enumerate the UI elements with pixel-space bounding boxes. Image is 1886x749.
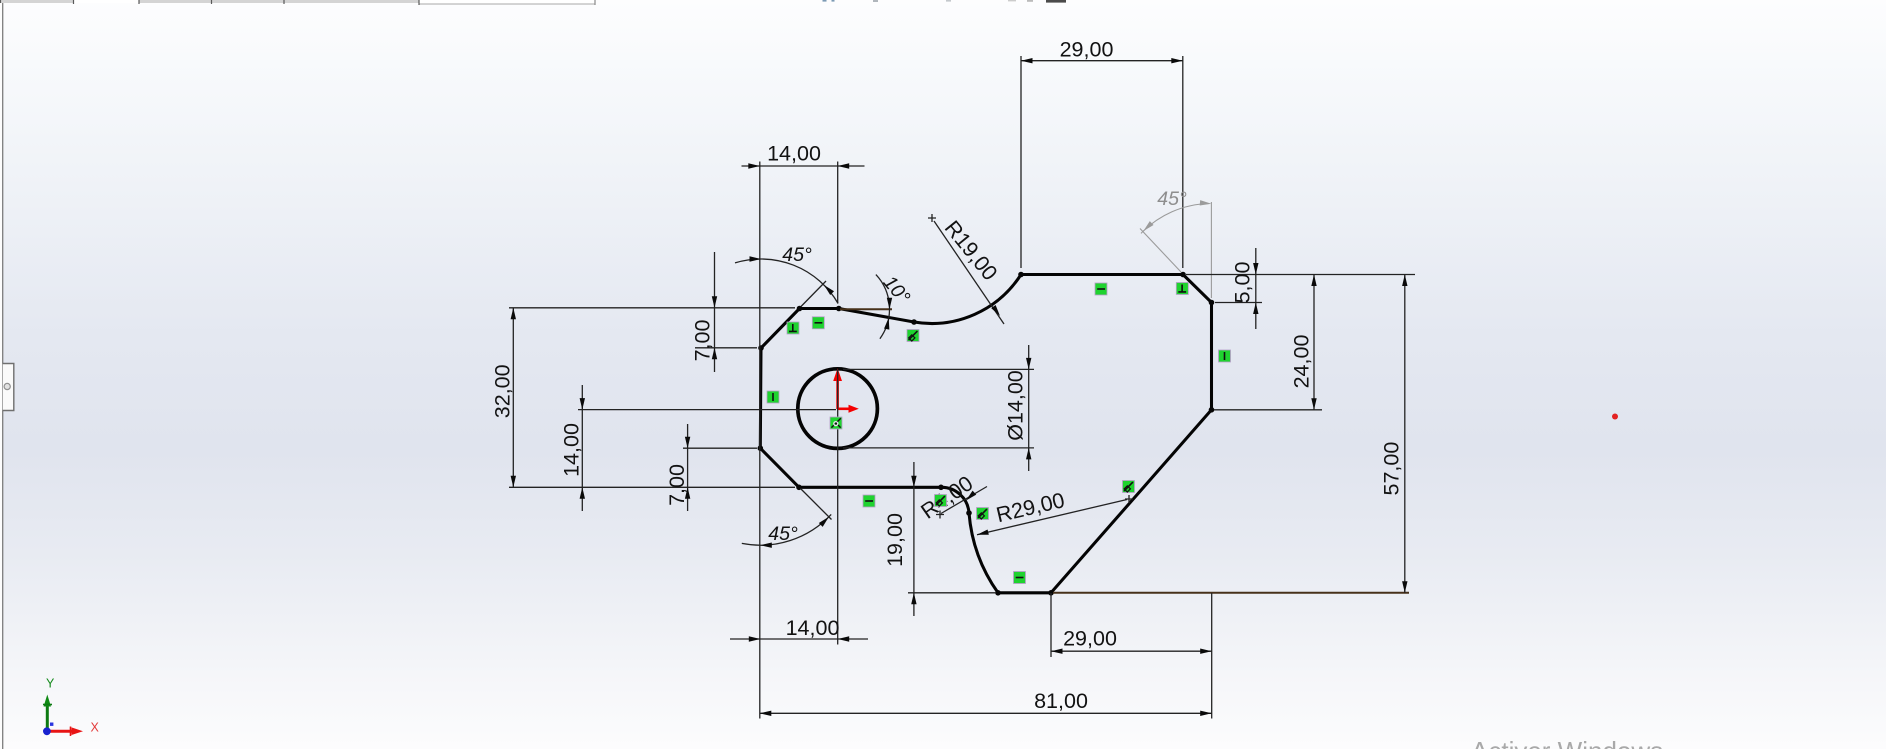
dimension Ø14,00 [843, 345, 1034, 471]
svg-text:14,00: 14,00 [786, 616, 840, 640]
svg-text:7,00: 7,00 [665, 464, 689, 506]
relation icon vertical (left edge) [767, 391, 779, 403]
svg-text:19,00: 19,00 [883, 513, 907, 567]
dimension R4,00 [917, 471, 987, 524]
svg-text:45°: 45° [768, 523, 798, 545]
dimension 7,00 top-left [691, 252, 758, 372]
dimension 14,00 left [560, 385, 837, 511]
dimension 45 deg bottom-left [742, 489, 832, 548]
svg-text:Ø14,00: Ø14,00 [1004, 370, 1028, 441]
left panel collapsed tab handle [3, 364, 14, 411]
dimension 14,00 top-left [742, 142, 865, 169]
svg-text:57,00: 57,00 [1380, 442, 1404, 496]
shared extension line x=837.7 upper [837, 162, 839, 304]
svg-text:81,00: 81,00 [1034, 689, 1088, 713]
shared extension line y=274.5 right [1186, 274, 1415, 276]
svg-text:29,00: 29,00 [1063, 627, 1117, 651]
dimension 24,00 [1214, 275, 1322, 410]
relation icon tangent (R4 left) [935, 495, 947, 507]
relation icon tangent (10deg/R19) [907, 330, 919, 342]
top toolbar remnant strip [0, 0, 595, 5]
svg-text:45°: 45° [1157, 188, 1187, 210]
svg-text:Activer Windows: Activer Windows [1471, 736, 1663, 749]
svg-text:45°: 45° [782, 244, 812, 266]
dimension 45 deg top-right (gray driven) [1140, 188, 1212, 298]
dimension 29,00 top [1021, 37, 1183, 268]
svg-text:32,00: 32,00 [491, 364, 515, 418]
relation icon tangent (R29/diagonal) [1123, 481, 1135, 493]
sketch profile outline [760, 275, 1211, 593]
relation icon perpendicular (chamfer TL) [787, 322, 799, 334]
toolbar icon bottom remnants [823, 0, 1067, 3]
dimension 45 deg top-left [735, 244, 838, 307]
dimension 29,00 bottom [1051, 593, 1212, 719]
svg-text:24,00: 24,00 [1290, 335, 1314, 389]
relation icon perpendicular (chamfer TR) [1176, 283, 1188, 295]
svg-text:5,00: 5,00 [1231, 262, 1255, 304]
triad origin sphere [43, 727, 51, 735]
shared extension line x=837.7 lower (circle centerline) [837, 369, 839, 644]
svg-text:7,00: 7,00 [691, 320, 715, 362]
stray red point [1612, 414, 1618, 420]
dimension 57,00 [1053, 275, 1409, 593]
triad X axis [47, 730, 72, 733]
relation icon horizontal (bottom-left edge) [863, 495, 875, 507]
relation icon horizontal (bottom edge) [1014, 572, 1026, 584]
sketch circle Ø14 [798, 369, 878, 449]
dimension 10 deg [840, 272, 914, 339]
svg-text:X: X [91, 721, 100, 735]
dimension R19,00 [928, 214, 1004, 324]
svg-text:14,00: 14,00 [767, 142, 821, 166]
relation icon horizontal (top-left edge) [812, 317, 824, 329]
dimension 32,00 [491, 308, 796, 488]
dimension R29,00 [976, 488, 1133, 537]
dimension 81,00 [760, 689, 1212, 716]
relation icon vertical (right edge) [1219, 350, 1231, 362]
sketch endpoint dots [758, 272, 1215, 596]
relation icon horizontal (top edge) [1095, 283, 1107, 295]
dimension 7,00 bottom-left [665, 424, 757, 511]
sketch origin red arrows [833, 368, 859, 413]
dimension 5,00 [1215, 248, 1262, 329]
svg-text:Y: Y [46, 677, 55, 691]
svg-text:29,00: 29,00 [1060, 37, 1114, 61]
left panel border [0, 3, 2, 749]
svg-text:14,00: 14,00 [560, 423, 584, 477]
shared extension line left vertical x=759.8 [759, 162, 761, 719]
triad Y axis [46, 706, 49, 731]
dimension 14,00 bottom [730, 616, 868, 642]
relation icon fixed (circle center) [830, 417, 842, 429]
relation icon tangent (R4/R29) [977, 508, 989, 520]
dimension 19,00 [883, 462, 996, 616]
coordinate triad origin (bottom-left) [43, 677, 100, 737]
